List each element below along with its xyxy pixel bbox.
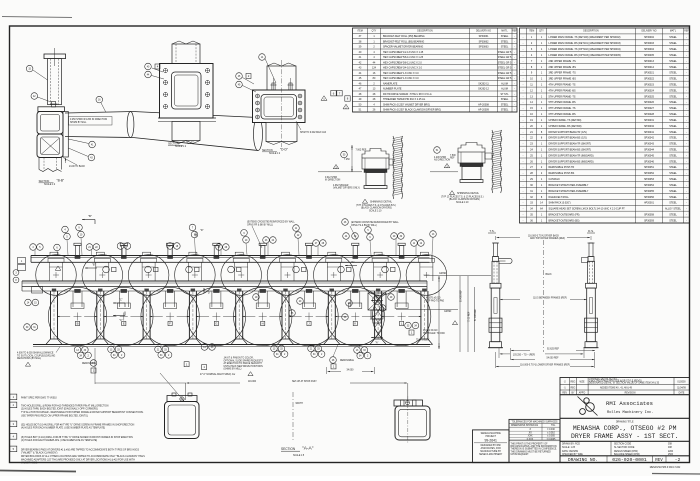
svg-text:F: F bbox=[169, 322, 171, 326]
svg-text:STEEL: STEEL bbox=[669, 78, 677, 81]
svg-text:"B-B": "B-B" bbox=[57, 179, 65, 183]
svg-text:SP30059: SP30059 bbox=[644, 219, 655, 222]
crosstie note mid-left bbox=[342, 219, 349, 226]
svg-text:SP30063: SP30063 bbox=[479, 46, 490, 49]
svg-text:99-2641: 99-2641 bbox=[484, 438, 497, 442]
tolerances box bbox=[509, 419, 560, 462]
cutting plane B above rail bbox=[82, 219, 95, 221]
upper can pedestals between rails bbox=[49, 262, 51, 281]
svg-text:(SHIMS BY MILL): (SHIMS BY MILL) bbox=[224, 369, 242, 371]
svg-text:TWO HOLES DRILL & REAM FOR #10: TWO HOLES DRILL & REAM FOR #10 THREADED … bbox=[21, 404, 109, 407]
svg-text:THREADED TAPER PIN #10 X 2.25: THREADED TAPER PIN #10 X 2.25 LG bbox=[383, 98, 425, 101]
svg-text:SHIM PACK (0.020"): SHIM PACK (0.020") bbox=[549, 202, 571, 205]
upper square tube section bbox=[37, 112, 63, 135]
warning triangles near D-D bbox=[321, 96, 327, 101]
svg-text:0.250 SHIM FR & BK IN DIRECTIO: 0.250 SHIM FR & BK IN DIRECTION bbox=[70, 119, 108, 121]
svg-text:(EXTEND CROSSTIE REINFORCED BY: (EXTEND CROSSTIE REINFORCED BY WALL bbox=[351, 221, 400, 224]
svg-text:SP30052: SP30052 bbox=[644, 172, 655, 175]
removable balloons bbox=[90, 360, 97, 367]
svg-text:"D": "D" bbox=[200, 229, 204, 232]
svg-text:STEEL: STEEL bbox=[669, 48, 677, 51]
svg-text:STEEL: STEEL bbox=[669, 219, 677, 222]
svg-text:"B": "B" bbox=[88, 214, 92, 218]
svg-text:.XXX: .XXX bbox=[527, 436, 533, 438]
svg-text:LOWER MAIN FRAME -TS (OPT102): LOWER MAIN FRAME -TS (OPT102) (WELDMENT … bbox=[549, 48, 621, 51]
svg-text:BRACKET-FELT ROLL (PM) BEARING: BRACKET-FELT ROLL (PM) BEARING bbox=[383, 35, 425, 38]
svg-text:SCALE 1:10: SCALE 1:10 bbox=[456, 201, 469, 204]
svg-text:SP30024: SP30024 bbox=[644, 89, 655, 92]
seneca box bbox=[473, 430, 510, 463]
revision table bbox=[560, 378, 690, 395]
svg-text:STEEL GR 5: STEEL GR 5 bbox=[498, 67, 512, 70]
svg-text:K: K bbox=[354, 322, 356, 326]
svg-text:24.00 TO BACK: 24.00 TO BACK bbox=[69, 165, 86, 168]
svg-text:SP30046: SP30046 bbox=[644, 160, 655, 163]
svg-text:SP30054: SP30054 bbox=[644, 184, 655, 187]
svg-text:ITEM: ITEM bbox=[529, 31, 535, 33]
svg-text:USE TAPER PINS RECD ON UPPER F: USE TAPER PINS RECD ON UPPER FRAME BOLTE… bbox=[21, 414, 88, 417]
lower dims bbox=[498, 348, 500, 358]
svg-text:DRYER SUPPORT BEAM-BS (SHORT): DRYER SUPPORT BEAM-BS (SHORT) bbox=[549, 148, 592, 151]
svg-text:ALUM: ALUM bbox=[501, 88, 508, 91]
svg-text:MENASHA CORP., OTSEGO #2 PM: MENASHA CORP., OTSEGO #2 PM bbox=[573, 425, 677, 432]
svg-text:D.S.: D.S. bbox=[588, 229, 594, 233]
svg-text:STEEL: STEEL bbox=[669, 119, 677, 122]
svg-text:DIMENSIONS SHOWN AS: DIMENSIONS SHOWN AS bbox=[511, 424, 539, 427]
balloons far bottom-left bbox=[24, 324, 31, 331]
left end blocks below mid rail bbox=[32, 287, 43, 294]
svg-text:CATWALK: CATWALK bbox=[549, 178, 561, 181]
warning triangle inside frame bbox=[55, 266, 61, 270]
svg-text:(TYP 2 PLACES T.S. & 2 PLACES: (TYP 2 PLACES T.S. & 2 PLACES B.S.) bbox=[356, 204, 396, 207]
section B-B view: vertical post with cap bbox=[44, 54, 66, 59]
svg-text:SP30023: SP30023 bbox=[644, 83, 655, 86]
svg-text:77.00 REF: 77.00 REF bbox=[469, 311, 471, 322]
svg-text:REMOVABLE: REMOVABLE bbox=[340, 359, 354, 362]
svg-text:GRIND: GRIND bbox=[439, 273, 447, 275]
svg-text:"D": "D" bbox=[207, 292, 211, 295]
upper dryer circles bbox=[36, 255, 77, 296]
svg-text:RMI ASSOCIATES, AND THE INFORM: RMI ASSOCIATES, AND THE INFORMATION bbox=[511, 445, 557, 448]
svg-text:SENECA MACHINERY: SENECA MACHINERY bbox=[479, 453, 503, 456]
drawing title block bbox=[560, 418, 690, 441]
svg-text:AND TOP DRYER FRAMES (REF): AND TOP DRYER FRAMES (REF) bbox=[530, 237, 565, 240]
svg-text:TOL: TOL bbox=[551, 425, 556, 427]
svg-text:TO SUIT LOCAL COUPLE/LEVELING: TO SUIT LOCAL COUPLE/LEVELING bbox=[17, 354, 55, 357]
svg-text:SHIM TO 0.002 MAX CLR: SHIM TO 0.002 MAX CLR bbox=[300, 131, 327, 134]
svg-text:"A": "A" bbox=[375, 295, 379, 299]
leader lines to left column cap bbox=[160, 373, 184, 401]
svg-text:SP30027: SP30027 bbox=[644, 107, 655, 110]
svg-text:DRAWING TITLE: DRAWING TITLE bbox=[616, 420, 634, 423]
svg-text:RMI Associates: RMI Associates bbox=[606, 400, 653, 407]
svg-text:DRAWING NO.: DRAWING NO. bbox=[568, 457, 598, 463]
dim line 116.000 set-up bbox=[185, 383, 187, 400]
balloon 41 leader bbox=[89, 141, 96, 148]
svg-text:103.250 ~ TO ~ (REF): 103.250 ~ TO ~ (REF) bbox=[513, 354, 536, 356]
svg-text:(TYP 13 PLACES T.S. & 13 PLACE: (TYP 13 PLACES T.S. & 13 PLACES B.S.) bbox=[441, 195, 484, 198]
svg-text:SP30022: SP30022 bbox=[644, 78, 655, 81]
svg-text:TYP TOLER. TO PAD: TYP TOLER. TO PAD bbox=[423, 332, 445, 335]
svg-text:SK262-12: SK262-12 bbox=[478, 88, 489, 91]
bottom balloon callouts bbox=[74, 347, 81, 354]
svg-text:STEEL GR 5: STEEL GR 5 bbox=[498, 72, 512, 75]
svg-text:SCALE 1:2: SCALE 1:2 bbox=[269, 152, 281, 155]
note 1 bbox=[10, 394, 17, 400]
svg-text:87.438 REF: 87.438 REF bbox=[475, 308, 477, 321]
svg-text:T.S.: T.S. bbox=[489, 229, 494, 233]
svg-text:(EXTEND CROSSTIE REINFORCED BY: (EXTEND CROSSTIE REINFORCED BY WALL bbox=[247, 221, 296, 224]
svg-text:BRACKET-OUTBOARD (FR): BRACKET-OUTBOARD (FR) bbox=[549, 213, 580, 216]
svg-text:STEEL: STEEL bbox=[669, 143, 677, 146]
balloons 40 / 44 bbox=[145, 63, 152, 70]
svg-text:DRYER SUPPORT BEAM-TR (SHORT): DRYER SUPPORT BEAM-TR (SHORT) bbox=[549, 143, 592, 146]
jack bolt bbox=[52, 101, 56, 107]
svg-text:SL SECTION CODE: SL SECTION CODE bbox=[614, 447, 635, 449]
svg-text:STEEL: STEEL bbox=[669, 125, 677, 128]
svg-text:STEEL: STEEL bbox=[501, 40, 509, 43]
svg-text:75.975 ELEV: 75.975 ELEV bbox=[416, 339, 430, 341]
note 5 bbox=[10, 446, 17, 452]
balloon+box combos inside frame band bbox=[103, 266, 110, 273]
svg-text:STEEL: STEEL bbox=[669, 83, 677, 86]
shimming detail left bbox=[362, 149, 389, 159]
svg-text:(2) HOLES THRU EACH BOLTED JOI: (2) HOLES THRU EACH BOLTED JOINT (DIAGON… bbox=[21, 408, 98, 411]
svg-text:124: 124 bbox=[372, 67, 377, 70]
svg-text:(4) HOLES FOR EACH NAMEPLATE.: (4) HOLES FOR EACH NAMEPLATE. (USE NAMEP… bbox=[21, 439, 97, 442]
svg-text:SP30032: SP30032 bbox=[644, 125, 655, 128]
svg-text:"C": "C" bbox=[119, 298, 123, 302]
svg-text:SQUARE HEAD SET SCREW (JACK BO: SQUARE HEAD SET SCREW (JACK BOLT) 3/4-10… bbox=[549, 208, 626, 211]
lower can center marks bbox=[74, 316, 82, 318]
svg-text:ADDED ITEMS 40 , 41, 48 & 49: ADDED ITEMS 40 , 41, 48 & 49 bbox=[600, 386, 633, 389]
svg-text:4.000 TO 6.000 SHIM ALLOWANCE: 4.000 TO 6.000 SHIM ALLOWANCE bbox=[17, 352, 54, 355]
svg-text:STEEL: STEEL bbox=[669, 42, 677, 45]
svg-text:(BLACK CLAWSON DRYERS): (BLACK CLAWSON DRYERS) bbox=[361, 207, 392, 210]
shimming detail right dims bbox=[434, 147, 441, 154]
svg-text:STEEL: STEEL bbox=[669, 113, 677, 116]
section A-A left column section bbox=[167, 396, 197, 402]
svg-text:STEEL: STEEL bbox=[669, 72, 677, 75]
bracket cap plate bbox=[38, 107, 65, 112]
svg-text:7.062 REF: 7.062 REF bbox=[356, 150, 367, 152]
svg-text:STEEL: STEEL bbox=[669, 95, 677, 98]
svg-text:DRYER FRAME ASSY - 1ST SECT.: DRYER FRAME ASSY - 1ST SECT. bbox=[571, 433, 678, 440]
svg-text:DEVIATIONS (BY MILL): DEVIATIONS (BY MILL) bbox=[17, 357, 41, 360]
svg-text:"D-D": "D-D" bbox=[280, 148, 288, 152]
horizontal dryer pipe bbox=[65, 112, 133, 114]
svg-text:SP30056: SP30056 bbox=[644, 196, 655, 199]
lower square tube section with brace bbox=[37, 134, 63, 158]
left bill-of-materials table bbox=[353, 28, 518, 112]
svg-text:5TH UPPER FRAME -TS: 5TH UPPER FRAME -TS bbox=[549, 95, 576, 98]
svg-text:MANUFACTURE BY: MANUFACTURE BY bbox=[480, 450, 501, 453]
svg-text:HEX CAPSCREW 1/2-13 UNC X 1.25: HEX CAPSCREW 1/2-13 UNC X 1.25 bbox=[383, 51, 424, 54]
balloons below crosstie bbox=[343, 233, 350, 240]
svg-text:AP-20009: AP-20009 bbox=[478, 109, 489, 112]
dim 34.000 under last bay bbox=[326, 367, 328, 374]
svg-text:SP30051: SP30051 bbox=[644, 166, 655, 169]
svg-text:DATE: DATE bbox=[679, 392, 685, 395]
svg-text:SP30031: SP30031 bbox=[644, 119, 655, 122]
lower dryer circles behind bbox=[48, 287, 106, 345]
svg-text:STEEL GR 5: STEEL GR 5 bbox=[498, 51, 512, 54]
svg-text:STEEL: STEEL bbox=[669, 172, 677, 175]
gearbox detail inside assembly bbox=[368, 293, 386, 310]
svg-text:STEEL GR 5: STEEL GR 5 bbox=[498, 56, 512, 59]
note 3 bbox=[10, 421, 17, 427]
svg-text:DESIGNED BY RMI: DESIGNED BY RMI bbox=[481, 445, 501, 447]
svg-text:G: G bbox=[215, 322, 217, 326]
svg-text:SCALE: 1:25: SCALE: 1:25 bbox=[562, 446, 576, 449]
svg-text:"C": "C" bbox=[119, 318, 123, 322]
shim leader right bbox=[296, 121, 301, 130]
shimming detail right label bbox=[449, 191, 454, 195]
svg-text:DRYER SUPPORT BEAM-TR (INBOARD: DRYER SUPPORT BEAM-TR (INBOARD) bbox=[549, 154, 594, 157]
svg-text:OPNG FR & BK BY MILL): OPNG FR & BK BY MILL) bbox=[247, 224, 273, 226]
balloon 43 leader bbox=[88, 154, 95, 161]
svg-text:REG: REG bbox=[571, 387, 576, 389]
svg-text:92.625 REF: 92.625 REF bbox=[547, 348, 560, 350]
svg-text:STEEL: STEEL bbox=[669, 148, 677, 151]
svg-text:47'-0" NOMINAL MACH SPEC) Cw: 47'-0" NOMINAL MACH SPEC) Cw bbox=[200, 373, 236, 376]
dark fittings on mid rail chord bbox=[75, 289, 81, 292]
svg-text:± 0.010: ± 0.010 bbox=[547, 432, 555, 434]
svg-text:SP30041: SP30041 bbox=[644, 131, 655, 134]
posts above top rail bbox=[75, 246, 79, 256]
scan sheet edge top-left bbox=[2, 17, 72, 18]
svg-text:SP30061: SP30061 bbox=[479, 35, 490, 38]
svg-text:SP30045: SP30045 bbox=[644, 154, 655, 157]
svg-text:HEX CAPSCREW 3/4-10 UNC X 2.0: HEX CAPSCREW 3/4-10 UNC X 2.0 bbox=[383, 67, 423, 70]
svg-text:AP-20008: AP-20008 bbox=[478, 103, 489, 106]
svg-text:SP30028: SP30028 bbox=[644, 113, 655, 116]
svg-text:STEEL: STEEL bbox=[501, 98, 509, 101]
svg-text:HEX CAPSCREW 5/8-11 UNC X 2.0: HEX CAPSCREW 5/8-11 UNC X 2.0 bbox=[383, 61, 422, 64]
svg-text:UPON REQUEST.: UPON REQUEST. bbox=[511, 454, 530, 456]
svg-text:MAT'L: MAT'L bbox=[501, 30, 508, 33]
svg-text:83.438 REF: 83.438 REF bbox=[461, 289, 463, 302]
top balloon callouts bbox=[62, 226, 69, 233]
svg-text:.XX: .XX bbox=[528, 432, 532, 434]
svg-text:3RD UPPER FRAME -BS: 3RD UPPER FRAME -BS bbox=[549, 78, 577, 81]
drawing number row bbox=[560, 456, 690, 463]
svg-text:DESCRIPTION: DESCRIPTION bbox=[583, 31, 599, 33]
svg-text:SPACER-VALMET DRYER BEARING: SPACER-VALMET DRYER BEARING bbox=[383, 46, 423, 49]
svg-text:STEEL: STEEL bbox=[669, 178, 677, 181]
svg-text:B: B bbox=[77, 322, 79, 326]
balloon cluster right of last can bbox=[405, 322, 412, 329]
svg-text:STEEL: STEEL bbox=[669, 36, 677, 39]
horizontal dim line right of assembly bbox=[424, 274, 491, 276]
svg-text:11/04/99: 11/04/99 bbox=[677, 387, 686, 389]
cutting plane B inside frame bbox=[85, 267, 97, 269]
svg-text:DRYER BRG PADS AT ALL OTHER LO: DRYER BRG PADS AT ALL OTHER LOCATIONS AR… bbox=[21, 455, 145, 458]
RMI logo circles bbox=[584, 398, 589, 403]
bottom cluster leaders bbox=[80, 345, 82, 347]
svg-text:RD HD DRIVE SCREW -TYPE U #8 X: RD HD DRIVE SCREW -TYPE U #8 X 0.5 LG bbox=[383, 93, 432, 96]
svg-text:STEEL: STEEL bbox=[669, 160, 677, 163]
svg-text:STEEL: STEEL bbox=[669, 101, 677, 104]
svg-text:STEEL: STEEL bbox=[669, 213, 677, 216]
center dashed line between columns bbox=[543, 240, 545, 352]
svg-text:MACHINED ADAPTERS (1/2" THK) A: MACHINED ADAPTERS (1/2" THK) ARE PROVIDE… bbox=[21, 458, 135, 461]
svg-text:THIS DRAWING MUST BE RETURNED: THIS DRAWING MUST BE RETURNED bbox=[511, 450, 552, 453]
svg-text:STEEL: STEEL bbox=[669, 60, 677, 63]
section C-C: bolted plate bbox=[160, 64, 214, 119]
right vertical dim lines bbox=[438, 276, 440, 349]
svg-text:116.000 ℄ TO ℄ LOWER DRYER FRA: 116.000 ℄ TO ℄ LOWER DRYER FRAMES (REF) bbox=[520, 363, 570, 366]
svg-text:STEEL: STEEL bbox=[669, 66, 677, 69]
svg-text:34.000: 34.000 bbox=[347, 370, 355, 372]
svg-text:REF: REF bbox=[684, 31, 689, 33]
svg-text:DESIGNATED DETAIL "B" SECTION: DESIGNATED DETAIL "B" SECTION VALUE OF S… bbox=[589, 382, 660, 385]
svg-text:STEEL GR 5: STEEL GR 5 bbox=[498, 61, 512, 64]
svg-text:LOWER MAIN FRAME -BS (DET101): LOWER MAIN FRAME -BS (DET101) (WELDMENT … bbox=[549, 42, 621, 45]
svg-text:WIDTH: WIDTH bbox=[296, 403, 304, 405]
svg-text:2200: 2200 bbox=[668, 451, 674, 453]
svg-text:SET-UP AT SHOP ASSY: SET-UP AT SHOP ASSY bbox=[292, 380, 317, 383]
svg-text:AS DIRECTION: AS DIRECTION bbox=[434, 159, 450, 162]
balloon leader inside last can bbox=[379, 305, 386, 312]
svg-text:ST STL: ST STL bbox=[500, 93, 509, 96]
svg-text:SP30043: SP30043 bbox=[644, 143, 655, 146]
svg-text:STEEL: STEEL bbox=[669, 202, 677, 205]
svg-text:HEX CAPSCREW 1-8 UNC X 3.0: HEX CAPSCREW 1-8 UNC X 3.0 bbox=[383, 77, 419, 80]
dim 110.5 between frames bbox=[500, 299, 520, 301]
svg-text:(VALMET DRYERS ONLY): (VALMET DRYERS ONLY) bbox=[333, 187, 360, 190]
svg-text:54.000 REF: 54.000 REF bbox=[546, 357, 559, 359]
svg-text:01/2000: 01/2000 bbox=[677, 381, 686, 383]
cutting plane A mid bbox=[345, 265, 357, 267]
section C-C: column above bbox=[172, 44, 200, 64]
svg-text:STEEL: STEEL bbox=[669, 107, 677, 110]
svg-text:BRACKET-OUTBOARD (BS): BRACKET-OUTBOARD (BS) bbox=[549, 219, 580, 222]
svg-text:SHIMMING DETAIL: SHIMMING DETAIL bbox=[370, 201, 393, 204]
svg-text:SP30053: SP30053 bbox=[644, 178, 655, 181]
svg-text:"A": "A" bbox=[351, 261, 355, 264]
logo block bbox=[560, 395, 690, 419]
svg-text:SECTION: SECTION bbox=[281, 447, 296, 451]
svg-text:SP30013: SP30013 bbox=[644, 60, 655, 63]
balloon 16 pipe leader bbox=[96, 96, 103, 103]
svg-text:2ND UPPER FRAME -TS: 2ND UPPER FRAME -TS bbox=[549, 60, 577, 63]
svg-text:BRACKET-STRETCHER ASSEMBLY: BRACKET-STRETCHER ASSEMBLY bbox=[549, 184, 589, 187]
svg-text:6TH UPPER FRAME -BS: 6TH UPPER FRAME -BS bbox=[549, 113, 577, 116]
svg-text:QTY: QTY bbox=[372, 31, 377, 33]
svg-text:TYP PAD TO PAD: TYP PAD TO PAD bbox=[426, 299, 445, 302]
svg-text:AT ERECTION TO PANCE SECURITY: AT ERECTION TO PANCE SECURITY bbox=[224, 362, 263, 365]
svg-text:SP30005: SP30005 bbox=[644, 54, 655, 57]
svg-text:SP30014: SP30014 bbox=[644, 66, 655, 69]
lower can pedestals below mid rail bbox=[72, 291, 74, 307]
svg-text:BRACKET-FELT ROLL (BS) BEARING: BRACKET-FELT ROLL (BS) BEARING bbox=[383, 40, 424, 43]
svg-text:VALMET HSGS.: VALMET HSGS. bbox=[21, 462, 38, 465]
svg-text:"A": "A" bbox=[375, 341, 379, 345]
svg-text:SHIM PACK (0.250" VALMET DRYER: SHIM PACK (0.250" VALMET DRYER BRG) bbox=[383, 103, 430, 106]
main assembly: top rail bbox=[31, 255, 430, 257]
svg-text:(8) HOLES BOT (0.144) DRILL FO: (8) HOLES BOT (0.144) DRILL FOR #8 TYPE … bbox=[21, 436, 133, 439]
svg-text:SECTION: SECTION bbox=[39, 180, 50, 183]
svg-text:JA KIT & PINION TO COLOR,: JA KIT & PINION TO COLOR, bbox=[224, 357, 254, 360]
balloon 42 jack bolt bbox=[31, 93, 38, 100]
svg-text:SCALE 1:10: SCALE 1:10 bbox=[369, 209, 382, 212]
svg-text:STEEL: STEEL bbox=[669, 196, 677, 199]
svg-text:NAMEPLATE: NAMEPLATE bbox=[383, 82, 398, 85]
svg-text:SCALE 1:2: SCALE 1:2 bbox=[44, 183, 56, 186]
svg-text:SHIM PACK (0.250" BLACK CLAWSO: SHIM PACK (0.250" BLACK CLAWSON DRYER BR… bbox=[383, 109, 441, 112]
svg-text:E: E bbox=[123, 322, 125, 326]
svg-text:SP30044: SP30044 bbox=[644, 148, 655, 151]
svg-text:UPPER FRAME -BS (DET300): UPPER FRAME -BS (DET300) bbox=[549, 125, 582, 128]
svg-text:026-020-0001: 026-020-0001 bbox=[612, 457, 647, 463]
svg-text:STEEL: STEEL bbox=[669, 190, 677, 193]
X braces on removable post bbox=[375, 295, 382, 306]
svg-text:STEEL: STEEL bbox=[669, 137, 677, 140]
svg-text:BACK: BACK bbox=[546, 273, 553, 276]
svg-text:116.000 ℄ TO ℄ DRYER BACK: 116.000 ℄ TO ℄ DRYER BACK bbox=[528, 234, 559, 237]
small caps at leg positions on rail bbox=[50, 252, 58, 255]
svg-text:UPPER FRAME -TS (DET300): UPPER FRAME -TS (DET300) bbox=[549, 119, 582, 122]
svg-text:IN DIRECTION: IN DIRECTION bbox=[325, 180, 341, 182]
bracket side plate bbox=[63, 112, 68, 158]
svg-text:BRACKET-STRETCHER ASSEMBLY: BRACKET-STRETCHER ASSEMBLY bbox=[549, 190, 589, 193]
svg-text:4.062 SPACER: 4.062 SPACER bbox=[333, 184, 349, 187]
svg-text:REMOVABLE POST-BS: REMOVABLE POST-BS bbox=[549, 172, 575, 175]
svg-text:STEEL: STEEL bbox=[501, 46, 509, 49]
svg-text:SP30026: SP30026 bbox=[644, 101, 655, 104]
cutting plane A marks right end bbox=[371, 300, 383, 302]
svg-text:DRYER SUPPORT BEAM-TR (C/S): DRYER SUPPORT BEAM-TR (C/S) bbox=[549, 131, 587, 134]
svg-text:IDLER-FELT ROLL: IDLER-FELT ROLL bbox=[549, 196, 570, 199]
svg-text:4TH UPPER FRAME -TS: 4TH UPPER FRAME -TS bbox=[549, 83, 576, 86]
svg-text:SCALE 1:2: SCALE 1:2 bbox=[175, 145, 187, 148]
left edge note boxes bbox=[18, 258, 26, 264]
svg-text:OPTIONAL SLIDE SPARE REQUESTS: OPTIONAL SLIDE SPARE REQUESTS bbox=[224, 359, 264, 362]
svg-text:116.000: 116.000 bbox=[248, 381, 257, 383]
balloons D-D bbox=[236, 73, 243, 80]
svg-text:DESIGN SPEED (FPM): DESIGN SPEED (FPM) bbox=[614, 451, 638, 453]
svg-text:LOWER MAIN FRAME -BS (OPT103): LOWER MAIN FRAME -BS (OPT103) (WELDMENT … bbox=[549, 54, 621, 57]
pipe shim note bbox=[69, 117, 113, 126]
note squares bottom bbox=[91, 368, 96, 373]
svg-text:STEEL: STEEL bbox=[501, 109, 509, 112]
stud bolts on cap bbox=[272, 83, 275, 90]
svg-text:STEEL: STEEL bbox=[501, 103, 509, 106]
break hatch below bbox=[38, 158, 40, 170]
svg-text:(BLACK CLAWSON DRYERS): (BLACK CLAWSON DRYERS) bbox=[449, 198, 480, 201]
svg-text:MENASHA PMS # DW-17-002: MENASHA PMS # DW-17-002 bbox=[650, 466, 681, 469]
svg-text:DRYER SUPPORT BEAM-BS (C/S): DRYER SUPPORT BEAM-BS (C/S) bbox=[549, 137, 587, 140]
balloon 15 leader bbox=[26, 65, 33, 72]
svg-text:4TH UPPER FRAME -BS: 4TH UPPER FRAME -BS bbox=[549, 89, 577, 92]
svg-text:REF: REF bbox=[512, 31, 517, 33]
svg-text:STEEL: STEEL bbox=[669, 54, 677, 57]
svg-text:NUMBER PLATE: NUMBER PLATE bbox=[383, 88, 402, 91]
svg-text:DATE: 09/23/99: DATE: 09/23/99 bbox=[562, 450, 579, 453]
svg-text:DESCRIPTION: DESCRIPTION bbox=[417, 31, 433, 33]
svg-text:ITEM: ITEM bbox=[357, 31, 363, 33]
svg-text:ASSOCIATES, FOR: ASSOCIATES, FOR bbox=[481, 447, 502, 450]
svg-text:STEEL: STEEL bbox=[669, 166, 677, 169]
svg-text:PAINT SPEC PER DWG 77-V0010: PAINT SPEC PER DWG 77-V0010 bbox=[21, 396, 57, 399]
section D-D: bolted plate bbox=[253, 90, 306, 123]
svg-text:30.063 ±0.010: 30.063 ±0.010 bbox=[423, 330, 438, 332]
svg-text:DELIVERY NO: DELIVERY NO bbox=[476, 31, 491, 33]
note 2 bbox=[10, 402, 17, 408]
svg-text:SHIMS BY MILL: SHIMS BY MILL bbox=[70, 122, 87, 124]
svg-text:LOWER MAIN FRAME -TS (DET100): LOWER MAIN FRAME -TS (DET100) (WELDMENT … bbox=[549, 36, 621, 39]
